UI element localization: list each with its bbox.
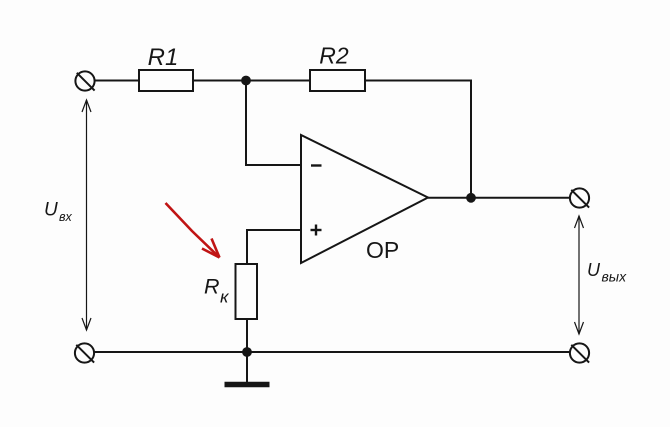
terminal bottom-right [570, 343, 589, 362]
op-amp minus pin mark [311, 164, 322, 166]
measure arrow Uvx [82, 100, 91, 330]
svg-text:к: к [220, 288, 230, 307]
op-amp U1 triangle [301, 135, 428, 263]
node ground junction dot [242, 347, 252, 357]
wire Rk to bottom rail [246, 319, 248, 352]
svg-text:R2: R2 [319, 43, 349, 69]
svg-text:вх: вх [59, 210, 73, 224]
wire noninverting input to Rk [247, 230, 301, 264]
svg-text:U: U [44, 200, 58, 221]
terminal bottom-left [75, 343, 94, 362]
svg-text:вых: вых [602, 269, 628, 285]
svg-text:OP: OP [366, 237, 399, 263]
wire op-amp output [428, 197, 570, 199]
svg-text:R1: R1 [148, 44, 179, 71]
svg-text:R: R [204, 275, 220, 299]
op-amp plus pin mark [311, 225, 322, 236]
wire R2 to feedback corner [365, 81, 471, 198]
resistor R1 [139, 70, 193, 91]
wire bottom rail [94, 351, 570, 353]
terminal output top-right [570, 188, 589, 207]
wire R1 to R2 [193, 80, 310, 82]
node A junction dot [241, 76, 251, 86]
wire input to R1 [95, 80, 139, 82]
resistor Rk [236, 264, 258, 319]
ground [225, 352, 270, 385]
node output junction dot [466, 193, 476, 203]
svg-text:U: U [587, 260, 601, 280]
red pointer arrow [166, 203, 220, 258]
terminal input top-left [75, 71, 94, 90]
resistor R2 [310, 70, 365, 91]
wire node A to inverting input [246, 81, 301, 166]
measure arrow Uvyx [575, 216, 584, 334]
